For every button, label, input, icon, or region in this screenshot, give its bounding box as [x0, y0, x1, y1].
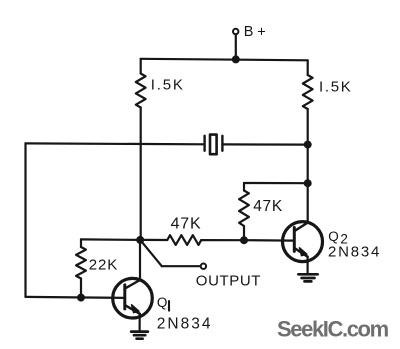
transistor Q1 base bar	[123, 285, 126, 309]
wire B+ drop	[235, 34, 237, 59]
node junction 22K bottom	[77, 294, 85, 302]
svg-text:Q: Q	[328, 229, 339, 244]
node junction main node A	[136, 236, 144, 244]
wire left branch below R1 down to node A	[140, 108, 142, 240]
svg-text:Q: Q	[157, 295, 168, 310]
crystal Y1 right plate	[221, 136, 223, 151]
svg-text:+: +	[257, 25, 265, 41]
node junction Q2 base node	[240, 236, 248, 244]
svg-text:I.5K: I.5K	[151, 77, 185, 94]
transistor Q2 base bar	[293, 228, 296, 252]
svg-text:I.5K: I.5K	[319, 79, 352, 96]
wire output horizontal	[162, 265, 201, 267]
wire 22K lower lead	[80, 279, 82, 298]
transistor Q2 emitter arrowhead	[300, 248, 307, 256]
transistor Q2 emitter inner diagonal	[295, 248, 308, 256]
transistor Q1 emitter inner diagonal	[125, 305, 140, 314]
node junction 47K top to collector branch	[304, 179, 312, 187]
wire crystal row left segment	[26, 142, 204, 145]
wire bottom-left horizontal to Q1 base	[26, 297, 126, 298]
svg-text:OUTPUT: OUTPUT	[196, 272, 261, 289]
wire Q2 emitter to ground	[307, 257, 309, 275]
terminal OUTPUT open circle	[201, 264, 206, 269]
svg-text:2N834: 2N834	[157, 315, 213, 332]
svg-text:47K: 47K	[253, 198, 283, 215]
transistor Q1 circle	[113, 278, 153, 318]
resistor R4 47K horizontal	[167, 235, 201, 245]
svg-text:22K: 22K	[89, 256, 118, 273]
resistor R3 22K	[76, 247, 86, 279]
wire R4 to Q2 base node	[201, 239, 244, 241]
wire 22K top horizontal	[81, 238, 140, 241]
wire left branch upper	[140, 59, 142, 74]
node junction B+ on rail	[232, 55, 240, 63]
ground Q1	[131, 332, 148, 339]
resistor R5 47K vertical	[239, 191, 249, 227]
wire top supply rail	[141, 59, 308, 61]
wire Q1 emitter to ground	[139, 314, 141, 332]
terminal B+ open circle	[233, 29, 238, 34]
node junction crystal to right branch	[304, 141, 312, 149]
svg-text:B: B	[244, 24, 254, 40]
svg-text:2N834: 2N834	[328, 244, 381, 261]
resistor R1 1.5K left	[136, 74, 146, 108]
wire 47K vertical lower lead	[243, 226, 245, 240]
wire right branch upper	[307, 60, 309, 75]
wire Q1 collector vertical	[139, 240, 141, 280]
resistor R2 1.5K right	[303, 75, 313, 109]
wire far-left vertical	[24, 143, 26, 297]
transistor Q1 emitter arrowhead	[132, 305, 139, 313]
ground Q2	[298, 274, 317, 281]
wire node A to resistor R4	[140, 239, 167, 241]
svg-text:47K: 47K	[171, 216, 202, 233]
wire 22K upper lead	[80, 239, 82, 247]
transistor Q2 circle	[283, 222, 323, 262]
wire Q2 base node to base bar	[244, 239, 294, 242]
transistor Q1 collector inner diagonal	[125, 280, 140, 288]
wire crystal row right segment	[224, 143, 308, 145]
wire right branch below R2 to Q2 collector	[307, 109, 309, 223]
wire 47K vertical upper lead	[243, 183, 245, 191]
transistor Q2 collector inner diagonal	[295, 223, 308, 231]
wire output diagonal	[140, 240, 162, 266]
svg-text:SeekIC.com: SeekIC.com	[277, 316, 389, 341]
crystal Y1 left plate	[203, 136, 205, 151]
crystal Y1 body rectangle	[210, 135, 217, 155]
wire 47K vertical top horizontal	[244, 182, 308, 184]
